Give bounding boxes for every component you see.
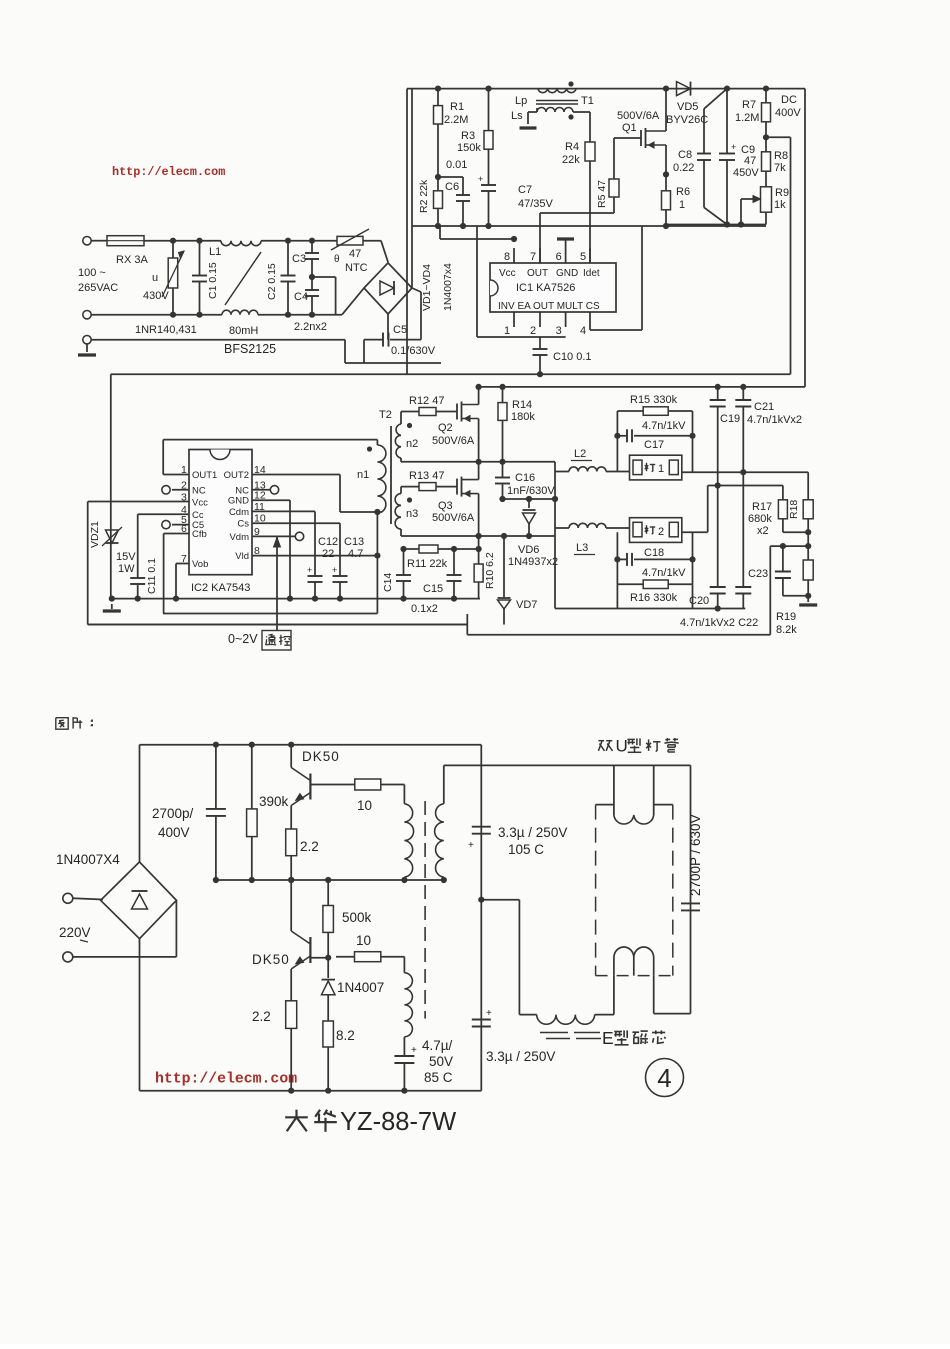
svg-text:105 C: 105 C [508, 842, 544, 857]
svg-text:1nF/630V: 1nF/630V [507, 485, 555, 497]
svg-text:4.7n/1kV: 4.7n/1kV [642, 420, 686, 432]
svg-text:L2: L2 [574, 448, 586, 460]
svg-text:R18: R18 [788, 500, 800, 519]
svg-text:2.2nx2: 2.2nx2 [294, 321, 327, 333]
svg-text:22: 22 [322, 548, 334, 560]
svg-text:Lp: Lp [515, 95, 527, 107]
svg-text:150k: 150k [457, 142, 481, 154]
svg-text:2700P / 630V: 2700P / 630V [688, 814, 703, 896]
svg-text:R17: R17 [752, 501, 772, 513]
svg-text:5: 5 [580, 251, 586, 263]
svg-text:1NR140,431: 1NR140,431 [135, 324, 197, 336]
svg-text:NTC: NTC [345, 262, 368, 274]
svg-text:C6: C6 [445, 181, 459, 193]
svg-text:+: + [486, 1008, 492, 1019]
svg-text:C13: C13 [344, 536, 364, 548]
svg-text:C19: C19 [720, 413, 740, 425]
svg-text:0~2V: 0~2V [228, 632, 258, 646]
svg-text:OUT: OUT [527, 268, 548, 279]
svg-text:C5: C5 [393, 324, 407, 336]
svg-text:+: + [468, 840, 474, 851]
svg-text:R9: R9 [775, 187, 789, 199]
svg-text:VD5: VD5 [677, 101, 698, 113]
svg-text:1N4007X4: 1N4007X4 [56, 852, 120, 867]
svg-text:C7: C7 [518, 184, 532, 196]
svg-text:4.7n/1kVx2: 4.7n/1kVx2 [747, 414, 802, 426]
svg-text:400V: 400V [775, 107, 801, 119]
svg-text:50V: 50V [429, 1054, 453, 1069]
svg-text:Idet: Idet [583, 268, 600, 279]
svg-text:n3: n3 [406, 508, 418, 520]
svg-text:47: 47 [744, 155, 756, 167]
svg-text:680k: 680k [748, 513, 772, 525]
svg-text:R4: R4 [565, 141, 579, 153]
svg-text:0.01: 0.01 [446, 159, 467, 171]
svg-text:GND: GND [228, 496, 249, 507]
svg-text:2: 2 [530, 325, 536, 337]
svg-text:1N4937x2: 1N4937x2 [508, 556, 558, 568]
svg-text:Vcc: Vcc [499, 268, 516, 279]
svg-text:500V/6A: 500V/6A [432, 435, 475, 447]
svg-text:+: + [332, 565, 337, 575]
svg-text:x2: x2 [757, 525, 769, 537]
svg-text:7: 7 [530, 251, 536, 263]
svg-text:220V: 220V [59, 925, 91, 940]
svg-text:R14: R14 [512, 399, 532, 411]
svg-text:R7: R7 [742, 99, 756, 111]
svg-text:C14: C14 [382, 573, 394, 592]
svg-text:Cs: Cs [237, 519, 249, 530]
svg-text:L3: L3 [576, 542, 588, 554]
svg-text:15V: 15V [116, 551, 136, 563]
svg-text:R10 6.2: R10 6.2 [484, 552, 496, 589]
svg-text:C20: C20 [689, 595, 709, 607]
svg-text:DK50: DK50 [302, 749, 340, 764]
svg-text:R5 47: R5 47 [596, 180, 608, 208]
svg-text:C3: C3 [292, 253, 306, 265]
svg-text:2.2: 2.2 [300, 839, 319, 854]
svg-text:C17: C17 [644, 439, 664, 451]
svg-text:85 C: 85 C [424, 1070, 453, 1085]
svg-text:C11 0.1: C11 0.1 [146, 558, 158, 594]
svg-text:BFS2125: BFS2125 [224, 342, 276, 356]
svg-text:C18: C18 [644, 547, 664, 559]
svg-text:2: 2 [658, 526, 664, 538]
svg-text:VD1~VD4: VD1~VD4 [421, 264, 433, 311]
svg-text:1: 1 [504, 325, 510, 337]
svg-text:R3: R3 [461, 130, 475, 142]
svg-text:500k: 500k [342, 910, 372, 925]
svg-text:u: u [152, 272, 158, 284]
svg-text:n2: n2 [406, 438, 418, 450]
svg-text:IC2 KA7543: IC2 KA7543 [191, 582, 250, 594]
svg-text:R15 330k: R15 330k [630, 394, 678, 406]
svg-text:T1: T1 [581, 95, 594, 107]
svg-text:C16: C16 [515, 472, 535, 484]
svg-text:VD7: VD7 [516, 599, 537, 611]
svg-text:OUT1: OUT1 [192, 470, 217, 481]
svg-text:C15: C15 [423, 583, 443, 595]
svg-text:10: 10 [356, 933, 371, 948]
svg-text:4.7µ/: 4.7µ/ [422, 1038, 453, 1053]
svg-text:Vld: Vld [235, 551, 249, 562]
svg-text:22k: 22k [562, 154, 580, 166]
svg-text:+: + [478, 174, 483, 184]
svg-text:0.1/630V: 0.1/630V [391, 345, 436, 357]
svg-text:0.1x2: 0.1x2 [411, 603, 438, 615]
svg-text:θ: θ [334, 254, 340, 265]
svg-text:YZ-88-7W: YZ-88-7W [340, 1108, 456, 1136]
svg-text:100 ~: 100 ~ [78, 267, 106, 279]
svg-text:4: 4 [580, 325, 586, 337]
svg-text:R13 47: R13 47 [409, 470, 444, 482]
svg-text:IC1 KA7526: IC1 KA7526 [516, 282, 575, 294]
svg-text:400V: 400V [158, 825, 190, 840]
svg-text:390k: 390k [259, 794, 289, 809]
svg-text:http://elecm.com: http://elecm.com [155, 1072, 297, 1088]
svg-text:500V/6A: 500V/6A [432, 512, 475, 524]
svg-text:+: + [731, 142, 736, 152]
svg-text:1N4007: 1N4007 [337, 980, 384, 995]
svg-text:VDZ1: VDZ1 [89, 521, 101, 548]
svg-text:1k: 1k [774, 199, 786, 211]
svg-text:0.22: 0.22 [673, 162, 694, 174]
svg-text:U: U [616, 737, 628, 756]
svg-text:47: 47 [349, 248, 361, 260]
svg-text:C1 0.15: C1 0.15 [207, 262, 219, 299]
svg-text:3: 3 [556, 325, 562, 337]
svg-text:Q2: Q2 [438, 422, 453, 434]
svg-text:C2 0.15: C2 0.15 [266, 263, 278, 300]
svg-text:+: + [307, 565, 312, 575]
svg-text:Cfb: Cfb [192, 529, 207, 540]
svg-text:R1: R1 [450, 101, 464, 113]
svg-text:T2: T2 [379, 409, 392, 421]
svg-text:R19: R19 [776, 611, 796, 623]
svg-text:2.2M: 2.2M [444, 114, 468, 126]
svg-text:4: 4 [657, 1063, 671, 1093]
svg-text:4.7n/1kV: 4.7n/1kV [642, 567, 686, 579]
svg-text:3.3µ / 250V: 3.3µ / 250V [498, 825, 567, 840]
svg-text:4.7n/1kVx2 C22: 4.7n/1kVx2 C22 [680, 617, 758, 629]
svg-text:450V: 450V [733, 167, 759, 179]
svg-text:R12 47: R12 47 [409, 395, 444, 407]
svg-text:2700p/: 2700p/ [152, 806, 194, 821]
svg-text:RX 3A: RX 3A [116, 254, 148, 266]
svg-text:Vcc: Vcc [192, 497, 208, 508]
svg-text:Q1: Q1 [622, 122, 637, 134]
svg-text:C21: C21 [754, 401, 774, 413]
svg-text:DC: DC [781, 94, 797, 106]
svg-text:Ls: Ls [511, 110, 523, 122]
svg-text:R8: R8 [774, 150, 788, 162]
svg-text:R11 22k: R11 22k [407, 558, 448, 570]
svg-text:Cdm: Cdm [229, 507, 249, 518]
svg-text:430V: 430V [143, 290, 169, 302]
svg-text:NC: NC [192, 485, 206, 496]
svg-text:1.2M: 1.2M [735, 112, 759, 124]
svg-text:Q3: Q3 [438, 500, 453, 512]
svg-text:7k: 7k [774, 162, 786, 174]
svg-text:DK50: DK50 [252, 952, 290, 967]
svg-text:1: 1 [658, 463, 664, 475]
svg-text:C10 0.1: C10 0.1 [553, 351, 592, 363]
svg-text:2.2: 2.2 [252, 1009, 271, 1024]
svg-text:3: 3 [181, 491, 187, 503]
svg-text:GND: GND [556, 268, 578, 279]
svg-text:E: E [602, 1028, 614, 1048]
svg-text:1W: 1W [118, 563, 135, 575]
svg-text:80mH: 80mH [229, 325, 258, 337]
svg-text:BYV26C: BYV26C [666, 114, 708, 126]
svg-text:C23: C23 [748, 568, 768, 580]
svg-text:R16 330k: R16 330k [630, 592, 678, 604]
svg-text:8: 8 [504, 251, 510, 263]
svg-text:500V/6A: 500V/6A [617, 110, 660, 122]
svg-text:3.3µ / 250V: 3.3µ / 250V [486, 1049, 555, 1064]
svg-text:C12: C12 [318, 536, 338, 548]
svg-text:R2 22k: R2 22k [418, 179, 430, 213]
svg-text:Vdm: Vdm [229, 532, 249, 543]
svg-text:L1: L1 [209, 246, 221, 258]
svg-text:+: + [411, 1045, 417, 1056]
svg-text:47/35V: 47/35V [518, 198, 554, 210]
svg-text:1N4007x4: 1N4007x4 [442, 263, 454, 311]
svg-text:1: 1 [679, 199, 685, 211]
svg-text:INV EA OUT MULT CS: INV EA OUT MULT CS [498, 301, 600, 312]
svg-text:C4: C4 [294, 291, 308, 303]
svg-text:Vob: Vob [192, 559, 208, 570]
svg-text:NC: NC [235, 485, 249, 496]
svg-text:4.7: 4.7 [348, 548, 363, 560]
svg-text:8.2k: 8.2k [776, 624, 797, 636]
svg-text:8.2: 8.2 [336, 1028, 355, 1043]
svg-text:265VAC: 265VAC [78, 282, 118, 294]
svg-text:C8: C8 [678, 149, 692, 161]
svg-text:180k: 180k [511, 411, 535, 423]
svg-text:VD6: VD6 [518, 544, 539, 556]
svg-text:http://elecm.com: http://elecm.com [112, 165, 225, 179]
svg-text:OUT2: OUT2 [224, 470, 249, 481]
svg-text:R6: R6 [676, 186, 690, 198]
svg-text:10: 10 [357, 798, 372, 813]
svg-text:6: 6 [556, 251, 562, 263]
svg-text:n1: n1 [357, 469, 369, 481]
